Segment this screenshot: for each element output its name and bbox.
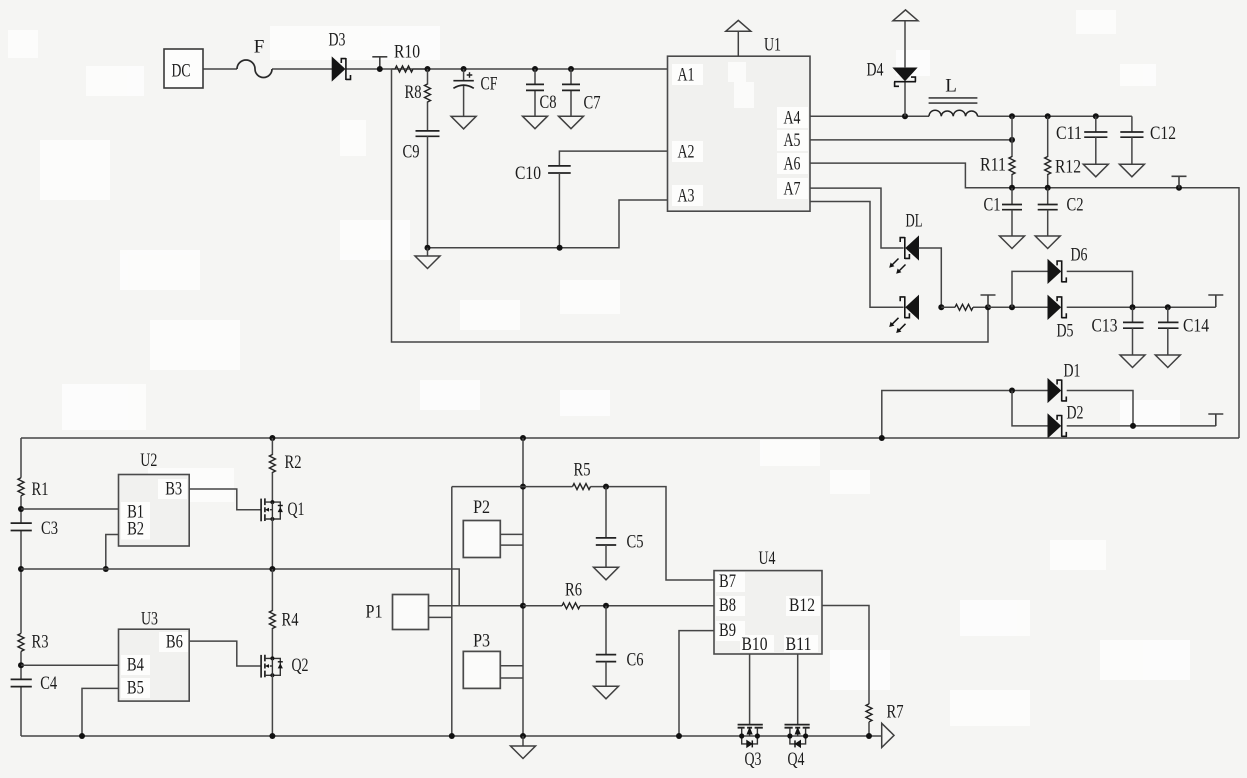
node junction center/R5 (520, 484, 526, 490)
svg-text:R1: R1 (32, 479, 49, 500)
capacitor C11 (1056, 116, 1108, 177)
svg-text:A3: A3 (678, 186, 695, 207)
pin B4 (121, 654, 150, 675)
svg-text:R10: R10 (394, 42, 420, 63)
svg-text:Q4: Q4 (788, 749, 805, 770)
capacitor C10 (515, 151, 668, 248)
svg-text:B10: B10 (742, 634, 768, 655)
node junction B5 return (79, 733, 85, 739)
wire: A7 to LED1 (810, 188, 904, 248)
fuse F (237, 37, 272, 78)
capacitor CF (polarized) (451, 66, 497, 129)
node junction R6/C6 (603, 603, 609, 609)
wire: B12 to R7 (822, 606, 869, 705)
pin B9 (716, 620, 745, 641)
connector P3 (463, 631, 500, 689)
svg-text:F: F (254, 37, 265, 58)
resistor R6 (523, 580, 606, 609)
pin A2 (672, 141, 703, 163)
node junction B2/mid rail (103, 566, 109, 572)
diode D5 (1048, 296, 1216, 342)
node junction P1 return (449, 733, 455, 739)
svg-text:B9: B9 (719, 620, 736, 641)
pin B7 (716, 571, 745, 592)
wire: B6 to Q2 gate (189, 641, 261, 666)
wire: mid rail (21, 569, 459, 606)
svg-text:B8: B8 (719, 595, 736, 616)
pin B10 (740, 634, 774, 655)
svg-text:A5: A5 (784, 130, 801, 151)
chip U4 (714, 548, 822, 654)
capacitor C6 (594, 606, 644, 699)
resistor R2 (269, 438, 301, 502)
svg-text:B11: B11 (786, 634, 812, 655)
svg-text:C8: C8 (540, 92, 557, 113)
node junction R10/R8 (425, 66, 431, 72)
svg-text:R4: R4 (282, 610, 299, 631)
node junction B9 return (676, 733, 682, 739)
wire: B9 to bottom rail (679, 631, 714, 736)
svg-text:C7: C7 (584, 93, 601, 114)
svg-text:CF: CF (481, 74, 498, 95)
diode D3 (329, 30, 351, 81)
resistor R11 (980, 116, 1015, 188)
node junction C13 top (1130, 304, 1136, 310)
node junction A4/C11 (1093, 113, 1099, 119)
svg-text:B6: B6 (166, 632, 183, 653)
capacitor C5 (594, 487, 644, 580)
svg-text:D6: D6 (1071, 245, 1088, 266)
wire: R5 tap vertical (451, 487, 453, 736)
svg-text:B12: B12 (789, 595, 815, 616)
wire: B1 to R1/C3 node (21, 508, 119, 510)
svg-text:P2: P2 (473, 497, 490, 518)
node junction R7 bottom (866, 733, 872, 739)
pin A5 (777, 130, 808, 151)
node test point T1 (372, 57, 387, 69)
wire: bottom rail (21, 735, 882, 737)
svg-text:A2: A2 (678, 142, 695, 163)
node test point T2 (1172, 176, 1187, 191)
wire: P1 lower pin to bottom rail (429, 616, 452, 618)
op-chip U1 (668, 35, 811, 212)
node junction C10 bottom (557, 245, 563, 251)
chip U3 (119, 609, 190, 702)
chip U2 (119, 450, 190, 546)
svg-text:C12: C12 (1150, 123, 1176, 144)
power arrow above U1 (726, 20, 751, 56)
wire: B4 to R3/C4 node (21, 664, 119, 666)
pin A1 (672, 64, 703, 86)
diode D6 (1012, 245, 1133, 308)
capacitor C2 (1035, 188, 1083, 249)
node test point T4 (1208, 295, 1223, 307)
node junction R5/C5 (603, 484, 609, 490)
svg-text:Q2: Q2 (292, 655, 309, 676)
transistor Q2 (261, 655, 308, 736)
svg-text:C5: C5 (627, 532, 644, 553)
wire: left rail (20, 438, 22, 736)
svg-text:C4: C4 (40, 673, 57, 694)
svg-text:C13: C13 (1092, 316, 1118, 337)
pin B6 (159, 632, 188, 653)
svg-text:B7: B7 (719, 571, 736, 592)
capacitor C7 (559, 66, 601, 129)
wire: center vertical (522, 438, 524, 736)
node junction A5/R11 (1009, 137, 1015, 143)
svg-text:C3: C3 (41, 518, 58, 539)
svg-text:U2: U2 (140, 450, 157, 471)
svg-text:D2: D2 (1067, 403, 1084, 424)
capacitor C12 (1119, 116, 1176, 177)
svg-text:R8: R8 (405, 82, 422, 103)
svg-text:C1: C1 (984, 195, 1001, 216)
wire: R5 to B7 (606, 487, 714, 580)
resistor R7 (866, 702, 904, 737)
wire: A4 output rail (810, 115, 1132, 117)
node junction D5 anode (1009, 304, 1015, 310)
pin B8 (716, 595, 745, 616)
svg-text:C14: C14 (1183, 316, 1209, 337)
node junction A4/R11 (1009, 113, 1015, 119)
pin A4 (777, 107, 808, 129)
node junction R11 bottom (1009, 185, 1015, 191)
transistor Q1 (261, 498, 304, 569)
svg-text:C2: C2 (1067, 195, 1084, 216)
capacitor C4 (11, 673, 58, 694)
capacitor C3 (11, 518, 58, 539)
node junction D1 anode (1009, 388, 1015, 394)
svg-text:C9: C9 (403, 142, 420, 163)
node junction D2 cathode (1130, 423, 1136, 429)
wire: B3 to Q1 gate (189, 489, 261, 510)
node junction rail/center (520, 435, 526, 441)
wire: left loop vertical (392, 69, 989, 342)
svg-text:L: L (945, 76, 957, 97)
capacitor C9 (403, 131, 440, 248)
svg-text:R6: R6 (565, 580, 582, 601)
svg-text:R2: R2 (285, 452, 302, 473)
svg-text:DL: DL (906, 211, 923, 232)
pin B12 (786, 595, 820, 616)
svg-text:Q1: Q1 (288, 499, 305, 520)
DC source box (164, 49, 203, 88)
svg-text:D4: D4 (867, 60, 884, 81)
svg-text:U3: U3 (141, 609, 158, 630)
svg-text:A1: A1 (678, 65, 695, 86)
svg-text:A7: A7 (784, 179, 801, 200)
svg-text:A6: A6 (784, 154, 801, 175)
pin B2 (121, 519, 150, 540)
svg-text:A4: A4 (784, 108, 801, 129)
node junction LED2 cathode (938, 304, 944, 310)
pin A6 (777, 153, 808, 175)
node junction rail/R2 (269, 435, 275, 441)
svg-text:B3: B3 (165, 479, 182, 500)
node junction A4/R12 (1045, 113, 1051, 119)
wire: P1 upper pin / R6 line start (429, 605, 524, 607)
pin A7 (777, 178, 808, 200)
pin A3 (672, 185, 703, 207)
wire: A5 feedback (810, 139, 1012, 141)
resistor (LED series) (941, 304, 988, 310)
node test point T5 (1208, 414, 1223, 426)
node junction left/mid rail (18, 566, 24, 572)
svg-text:D1: D1 (1064, 361, 1081, 382)
resistor R3 (18, 632, 49, 653)
capacitor C8 (523, 66, 557, 129)
transistor Q4 (785, 725, 810, 770)
connector P2 (463, 497, 500, 558)
svg-text:D5: D5 (1057, 321, 1074, 342)
svg-text:Q3: Q3 (745, 749, 762, 770)
wire: A6 to lower feedback rail (810, 163, 1239, 438)
node junction rail/D branch (879, 435, 885, 441)
resistor R5 (452, 460, 606, 490)
diode D1 (1048, 361, 1133, 426)
transistor Q3 (738, 725, 763, 770)
svg-text:R3: R3 (32, 632, 49, 653)
svg-text:C11: C11 (1056, 123, 1082, 144)
svg-text:R7: R7 (887, 702, 904, 723)
svg-text:B5: B5 (127, 677, 144, 698)
pin B3 (158, 479, 187, 500)
resistor R1 (18, 478, 49, 500)
node junction R12 bottom (1045, 185, 1051, 191)
node junction center/bottom rail (520, 733, 526, 739)
svg-text:C10: C10 (515, 163, 541, 184)
pin B11 (784, 634, 818, 655)
wire: R6 to B8 (606, 605, 714, 607)
wire: D1/D2 left branch (882, 391, 1048, 439)
wire: B2 to mid rail (106, 535, 119, 570)
resistor R8 (405, 69, 431, 131)
wire: B10 to Q3 gate (749, 654, 751, 724)
ground below C9 node (415, 248, 440, 269)
node junction (377, 66, 383, 72)
node junction C9 bottom (425, 245, 431, 251)
LED pair DL (889, 211, 922, 334)
resistor R12 (1045, 116, 1081, 188)
wire: main middle rail (21, 437, 1239, 439)
output terminal arrow (882, 723, 894, 747)
svg-text:D3: D3 (329, 30, 346, 51)
resistor R10 (392, 42, 428, 73)
node junction Q1 source/mid rail (269, 566, 275, 572)
capacitor C14 (1155, 307, 1209, 367)
diode D4 (zener to power arrow) (867, 10, 919, 119)
svg-text:B2: B2 (127, 519, 144, 540)
node junction center/R6 (520, 603, 526, 609)
ground below center vertical (511, 736, 536, 759)
svg-text:U4: U4 (759, 548, 776, 569)
node junction R1/C3/B1 (18, 506, 24, 512)
svg-text:U1: U1 (764, 35, 781, 56)
svg-text:P3: P3 (473, 631, 490, 652)
svg-text:R11: R11 (980, 155, 1006, 176)
diode D2 (1012, 391, 1216, 438)
svg-text:DC: DC (172, 61, 191, 82)
wire: P2 pins (500, 534, 523, 545)
node junction C14 top (1165, 304, 1171, 310)
wire: LED1 to LED2 junction (919, 248, 942, 307)
wire: B11 to Q4 gate (797, 654, 799, 724)
capacitor C13 (1092, 307, 1146, 367)
svg-text:R5: R5 (574, 460, 591, 481)
svg-text:B4: B4 (127, 654, 144, 675)
wire: main top rail DC to U1 (203, 68, 668, 70)
node test point T3 (981, 295, 996, 310)
inductor L (929, 76, 978, 117)
wire: bottom node to A3 (428, 200, 668, 248)
node junction R3/C4/B4 (18, 662, 24, 668)
pin B5 (121, 677, 150, 698)
wire: U1 lower output to LED2 (810, 202, 904, 308)
svg-text:C6: C6 (627, 650, 644, 671)
svg-text:R12: R12 (1055, 157, 1081, 178)
resistor R4 (269, 569, 298, 658)
svg-text:P1: P1 (366, 602, 383, 623)
pin B1 (121, 502, 150, 523)
node junction Q2 source (269, 733, 275, 739)
wire: B5 to bottom rail (82, 688, 119, 736)
wire: junction to D5/D6 node (988, 306, 1048, 308)
connector P1 (366, 595, 429, 630)
wire: P3 pins (500, 666, 523, 678)
capacitor C1 (984, 188, 1025, 249)
